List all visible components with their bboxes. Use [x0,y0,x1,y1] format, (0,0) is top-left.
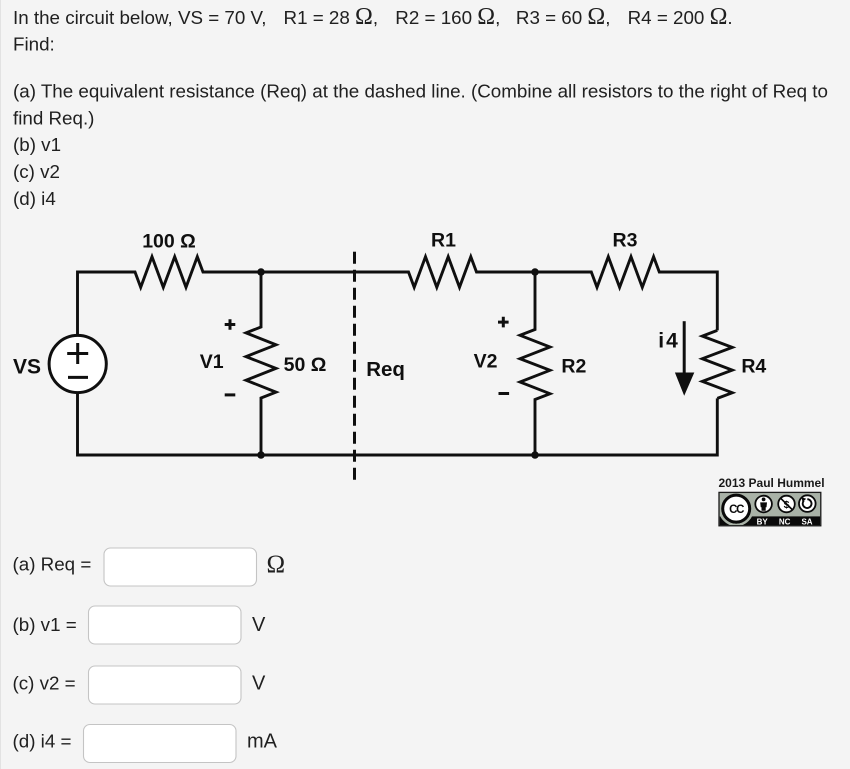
svg-text:(d) i4: (d) i4 [13,188,56,209]
svg-text:V1: V1 [200,351,224,373]
svg-text:Ω: Ω [267,551,286,578]
svg-text:V: V [252,614,266,636]
svg-text:V2: V2 [474,351,498,373]
svg-text:R4 = 200 Ω.: R4 = 200 Ω. [628,4,733,30]
svg-text:(b) v1 =: (b) v1 = [13,614,77,635]
svg-text:In the circuit below, VS = 70: In the circuit below, VS = 70 V, [13,7,267,28]
svg-text:R3: R3 [613,230,638,252]
svg-text:Req: Req [366,358,405,381]
svg-text:Find:: Find: [13,34,55,55]
svg-text:CC: CC [729,504,744,516]
svg-text:(c) v2 =: (c) v2 = [13,673,76,694]
svg-text:VS: VS [13,356,41,379]
svg-text:R3 = 60 Ω,: R3 = 60 Ω, [516,4,611,30]
svg-text:R4: R4 [741,356,766,378]
svg-text:50 Ω: 50 Ω [284,354,327,376]
svg-text:R2 = 160 Ω,: R2 = 160 Ω, [395,4,500,30]
svg-text:(a) The equivalent resistance: (a) The equivalent resistance (Req) at t… [13,80,828,101]
svg-text:(a) Req =: (a) Req = [13,554,92,575]
svg-text:(d) i4 =: (d) i4 = [13,730,72,751]
svg-text:(b) v1: (b) v1 [13,134,61,155]
svg-text:(c) v2: (c) v2 [13,161,60,182]
svg-text:R1 = 28 Ω,: R1 = 28 Ω, [284,4,379,30]
svg-text:R2: R2 [561,356,586,378]
svg-text:mA: mA [247,730,278,752]
svg-text:i4: i4 [658,330,680,353]
svg-text:find Req.): find Req.) [13,108,94,129]
svg-text:100 Ω: 100 Ω [142,230,196,252]
svg-text:V: V [252,673,266,695]
svg-text:2013 Paul Hummel: 2013 Paul Hummel [719,476,825,490]
svg-text:R1: R1 [431,230,456,252]
